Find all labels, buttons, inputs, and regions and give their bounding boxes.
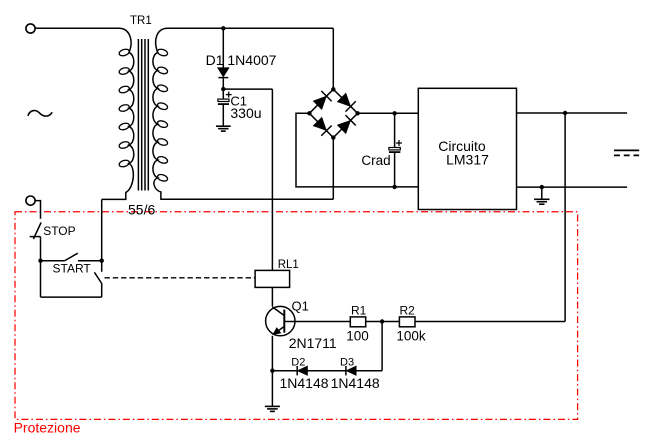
svg-text:Crad: Crad	[361, 153, 390, 168]
svg-text:100k: 100k	[396, 328, 426, 343]
svg-text:1N4148: 1N4148	[331, 375, 380, 391]
svg-text:R1: R1	[351, 304, 367, 318]
svg-text:D3: D3	[340, 357, 354, 369]
svg-text:TR1: TR1	[130, 15, 152, 27]
svg-text:Protezione: Protezione	[14, 420, 81, 436]
svg-text:55/6: 55/6	[128, 202, 155, 218]
svg-text:330u: 330u	[230, 105, 261, 121]
svg-text:1N4148: 1N4148	[280, 375, 329, 391]
svg-text:STOP: STOP	[43, 224, 75, 238]
svg-text:D1 1N4007: D1 1N4007	[206, 52, 277, 68]
svg-text:Q1: Q1	[292, 298, 309, 313]
svg-text:100: 100	[346, 328, 369, 343]
svg-text:2N1711: 2N1711	[289, 335, 337, 351]
svg-text:RL1: RL1	[278, 259, 299, 271]
svg-text:D2: D2	[291, 357, 305, 369]
svg-text:LM317: LM317	[446, 152, 489, 168]
svg-text:R2: R2	[400, 304, 416, 318]
svg-text:START: START	[53, 262, 92, 276]
